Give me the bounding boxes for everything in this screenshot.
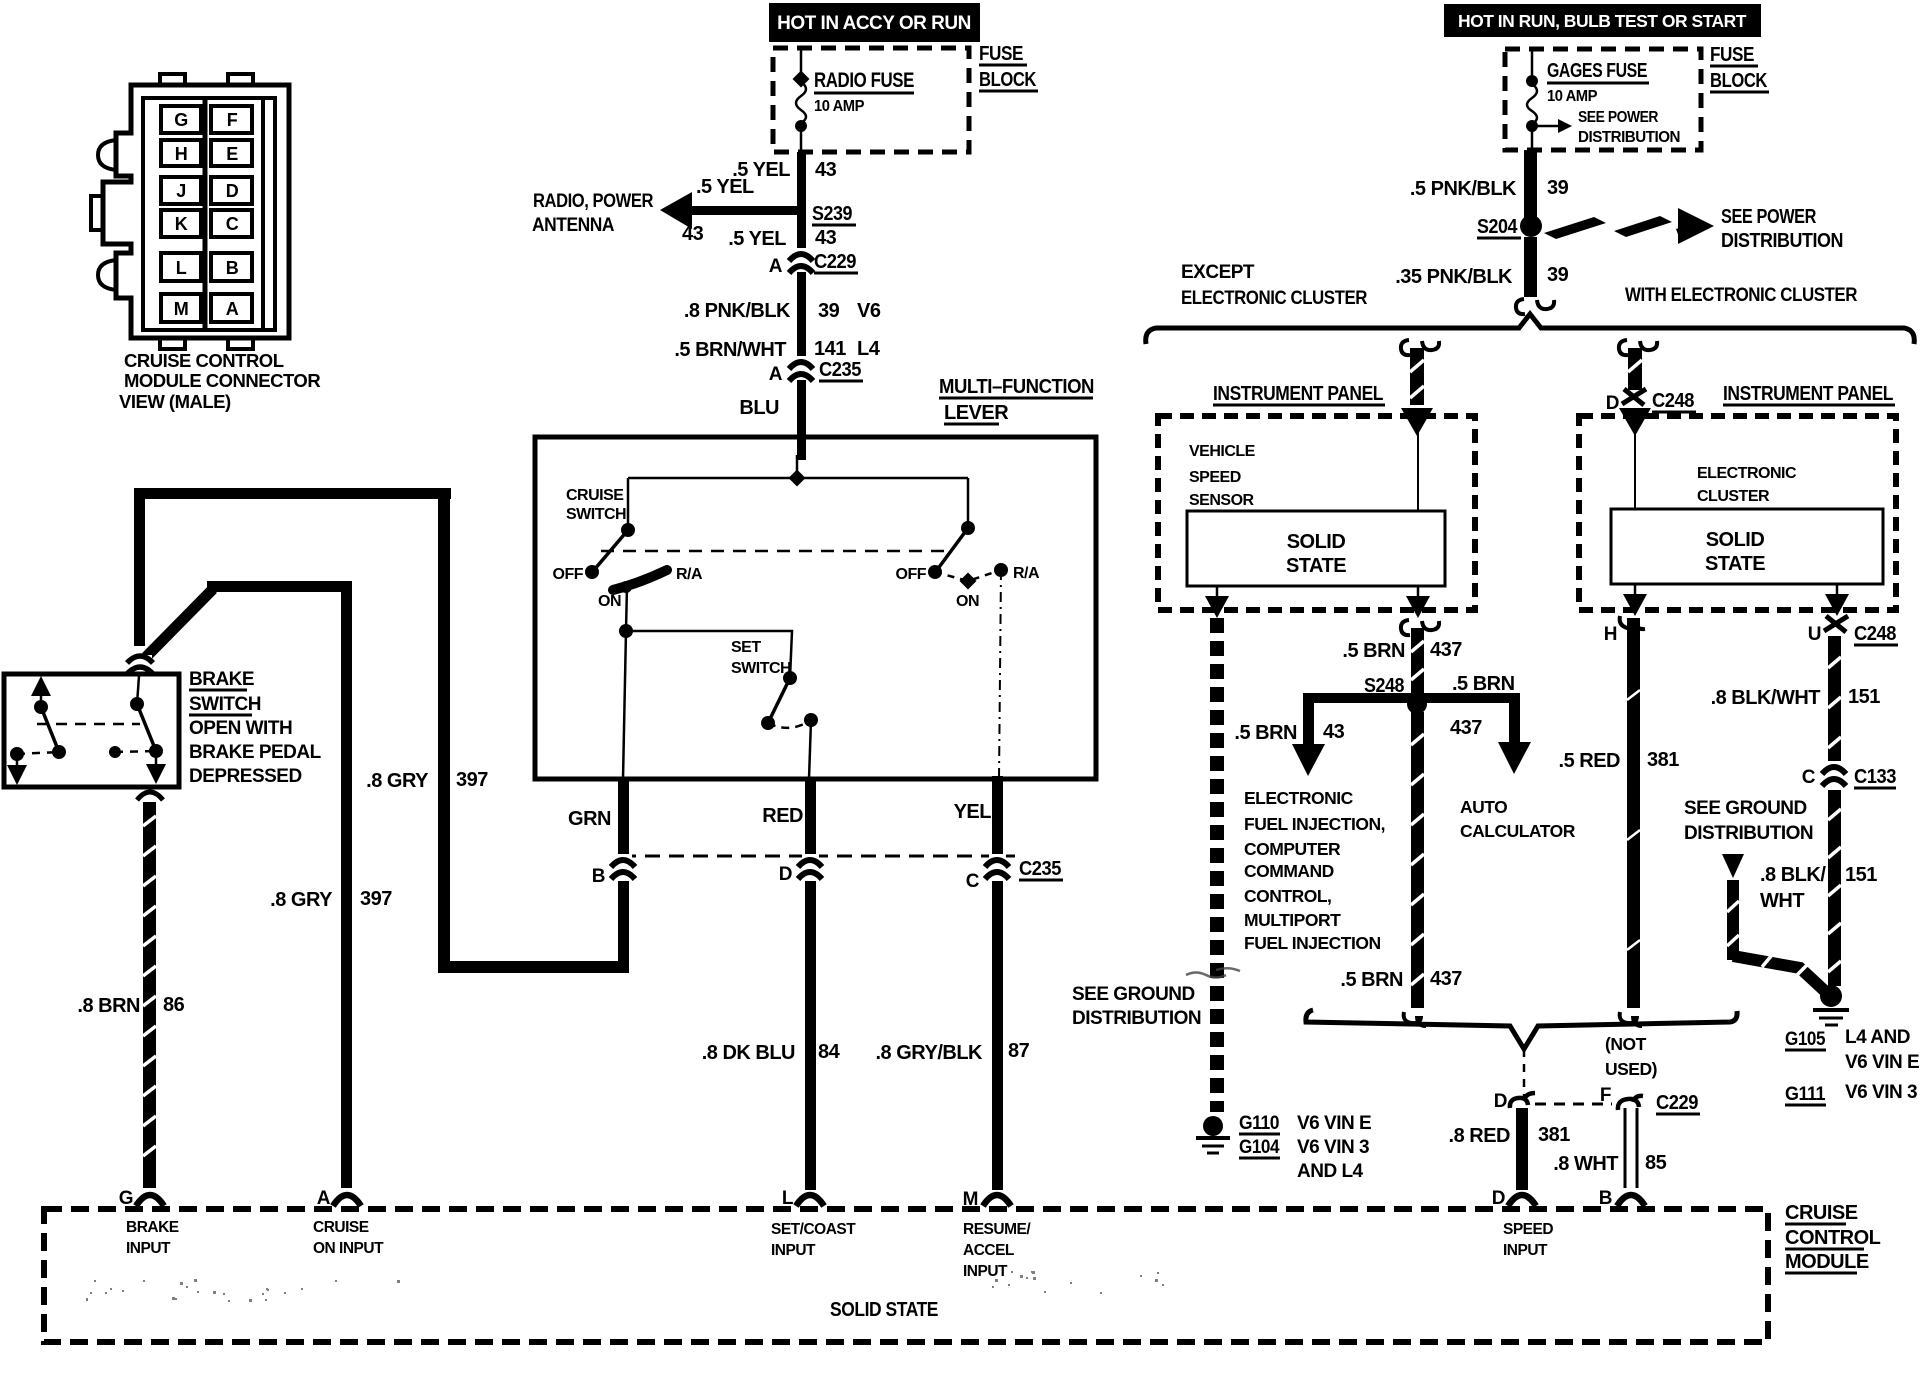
svg-text:.8 GRY: .8 GRY	[270, 889, 333, 911]
svg-text:OPEN WITH: OPEN WITH	[189, 718, 292, 739]
svg-text:CLUSTER: CLUSTER	[1697, 488, 1770, 505]
svg-text:S204: S204	[1477, 216, 1518, 238]
fuse block (radio fuse) dashed outline	[773, 48, 969, 152]
MULTI-FUNCTION LEVER label	[939, 376, 1094, 424]
ELECTRONIC FUEL INJECTION text	[1244, 788, 1385, 953]
svg-text:G: G	[119, 1188, 133, 1209]
C229 pin F connector	[1618, 1096, 1643, 1110]
hatched wire from ground distribution	[1727, 880, 1827, 993]
wire .8 DK BLU set/coast	[805, 881, 816, 1190]
gages fuse bottom terminal dot	[1526, 120, 1538, 132]
svg-text:.8 BLK/: .8 BLK/	[1760, 864, 1826, 886]
branch to auto calculator: stub and arrow	[1509, 693, 1520, 746]
svg-text:CRUISE: CRUISE	[313, 1219, 369, 1236]
RADIO POWER ANTENNA label	[532, 191, 654, 236]
svg-text:.5 YEL: .5 YEL	[728, 228, 786, 250]
module pin H connector (cluster output)	[1620, 616, 1645, 629]
svg-text:MULTIPORT: MULTIPORT	[1244, 910, 1341, 930]
brake switch left throw dashed	[17, 752, 59, 754]
svg-text:437: 437	[1430, 639, 1462, 661]
svg-text:ACCEL: ACCEL	[963, 1242, 1014, 1259]
BRAKE INPUT label	[126, 1219, 179, 1257]
wire to radio power antenna	[680, 206, 801, 215]
connector bottom mounting tab	[160, 338, 185, 349]
svg-text:437: 437	[1430, 968, 1462, 990]
svg-text:COMPUTER: COMPUTER	[1244, 839, 1341, 859]
right switch dashed throws	[935, 570, 1001, 581]
instrument panel box (speed sensor)	[1158, 416, 1475, 610]
set switch closed contact	[804, 713, 818, 727]
svg-text:INSTRUMENT PANEL: INSTRUMENT PANEL	[1723, 383, 1893, 405]
BRAKE SWITCH caption	[189, 669, 322, 787]
svg-text:GAGES FUSE: GAGES FUSE	[1547, 60, 1647, 82]
svg-text:FUSE: FUSE	[1710, 44, 1754, 66]
EXCEPT ELECTRONIC CLUSTER label	[1181, 262, 1368, 309]
svg-text:G111: G111	[1785, 1084, 1826, 1105]
CRUISE ON INPUT label	[313, 1219, 384, 1257]
svg-text:STATE: STATE	[1705, 553, 1765, 575]
svg-text:CRUISE: CRUISE	[1785, 1202, 1858, 1224]
svg-text:.5 RED: .5 RED	[1559, 750, 1621, 772]
pin E cavity	[211, 140, 252, 166]
svg-text:.35 PNK/BLK: .35 PNK/BLK	[1395, 266, 1513, 288]
VEHICLE SPEED SENSOR label	[1189, 443, 1256, 509]
brake switch left blade	[41, 707, 59, 752]
set switch pivot	[783, 671, 797, 685]
brake switch right pole arrow down	[155, 751, 158, 768]
FUSE BLOCK label (right block)	[1710, 44, 1768, 92]
brake switch right pole feed	[137, 676, 139, 704]
wire GRN loop: top horizontal segment	[137, 488, 451, 499]
svg-text:FUSE: FUSE	[979, 43, 1023, 65]
svg-text:397: 397	[456, 769, 488, 791]
SEE GROUND DISTRIBUTION (right)	[1684, 798, 1813, 844]
svg-text:C248: C248	[1854, 623, 1896, 645]
connector hooks at .5 RED wire end	[1620, 1012, 1642, 1026]
S248 distribution bar	[1303, 693, 1520, 703]
svg-text:.8 RED: .8 RED	[1449, 1125, 1511, 1147]
svg-text:INPUT: INPUT	[1503, 1242, 1548, 1259]
wire to left cruise switch	[627, 478, 630, 530]
svg-text:SPEED: SPEED	[1189, 469, 1241, 486]
pin F cavity	[211, 106, 252, 133]
svg-text:10 AMP: 10 AMP	[814, 98, 865, 115]
connector view caption	[119, 350, 320, 412]
right cruise switch pivot	[961, 521, 975, 535]
module pin D connector (lower)	[1508, 1195, 1536, 1206]
wire cruise-on branch horizontal	[207, 581, 352, 592]
connector outer shell	[103, 85, 289, 338]
wire GRN loop: left vertical segment	[438, 492, 450, 973]
instrument panel box (electronic cluster)	[1579, 416, 1896, 610]
svg-text:L4 AND: L4 AND	[1845, 1027, 1910, 1048]
svg-text:BLOCK: BLOCK	[1710, 70, 1768, 92]
svg-text:43: 43	[815, 227, 837, 249]
right branch connector hooks	[1619, 340, 1628, 355]
wire .8 WHT 85 (unfilled)	[1625, 1108, 1637, 1188]
svg-text:C229: C229	[814, 251, 856, 273]
pin B cavity	[211, 253, 252, 281]
svg-text:SPEED: SPEED	[1503, 1221, 1553, 1238]
svg-text:151: 151	[1845, 864, 1877, 886]
pin A cavity	[211, 294, 252, 322]
svg-text:RESUME/: RESUME/	[963, 1221, 1031, 1238]
brake switch right lower contact	[109, 746, 121, 758]
ground G105/G111	[1813, 985, 1849, 1025]
scan speckle noise inside module	[86, 1271, 1164, 1302]
SET SWITCH label	[731, 639, 791, 677]
svg-text:SOLID: SOLID	[1287, 531, 1346, 553]
wire .8 BRN 86 (hatched)	[143, 802, 156, 1188]
svg-text:F: F	[227, 110, 238, 130]
module pin G connector	[136, 1195, 164, 1206]
svg-text:D: D	[226, 181, 239, 201]
node junction at lever feed	[789, 470, 806, 487]
svg-text:G110: G110	[1239, 1113, 1279, 1134]
connector C229 pin A	[789, 248, 813, 273]
svg-text:SWITCH: SWITCH	[731, 660, 791, 677]
svg-text:84: 84	[818, 1041, 841, 1063]
svg-text:SWITCH: SWITCH	[189, 694, 261, 715]
svg-text:C133: C133	[1854, 766, 1896, 788]
svg-text:GRN: GRN	[568, 808, 611, 830]
svg-text:L: L	[176, 258, 187, 278]
NOT USED label	[1605, 1034, 1657, 1079]
radio fuse bottom terminal dot	[795, 120, 807, 132]
wire .35 PNK/BLK 39	[1524, 237, 1537, 297]
radio power antenna arrowhead	[660, 192, 692, 229]
svg-text:BRAKE: BRAKE	[189, 669, 254, 690]
svg-text:R/A: R/A	[676, 566, 703, 583]
ON contact (right switch)	[960, 573, 977, 590]
wire 43 from radio fuse (.5 YEL)	[797, 152, 806, 211]
arrow into right instrument panel	[1619, 408, 1651, 436]
svg-text:SEE POWER: SEE POWER	[1578, 109, 1658, 126]
svg-text:COMMAND: COMMAND	[1244, 861, 1334, 881]
svg-text:B: B	[226, 258, 239, 278]
wire inside speed sensor box	[1417, 432, 1419, 511]
cruise control module connector view (male)	[91, 74, 289, 349]
svg-text:(NOT: (NOT	[1605, 1034, 1647, 1054]
connector top mounting tab	[160, 74, 185, 85]
svg-text:C: C	[226, 214, 239, 234]
branch brace	[1146, 314, 1915, 344]
svg-text:.5 PNK/BLK: .5 PNK/BLK	[1410, 178, 1517, 200]
svg-text:SWITCH: SWITCH	[566, 506, 626, 523]
left cruise switch pivot	[621, 523, 635, 537]
brake switch left pole arrow down	[16, 754, 19, 770]
svg-text:MODULE: MODULE	[1785, 1251, 1869, 1273]
svg-text:.8 GRY: .8 GRY	[366, 770, 429, 792]
svg-text:DISTRIBUTION: DISTRIBUTION	[1072, 1008, 1201, 1029]
SOLID STATE label (cluster)	[1705, 529, 1765, 575]
SEE POWER DISTRIBUTION (splice)	[1721, 206, 1843, 252]
set switch open contact	[761, 716, 775, 730]
connector center divider	[203, 100, 208, 328]
connector C235 harness dashed line	[621, 855, 1015, 858]
SET/COAST INPUT label	[771, 1221, 856, 1259]
connector inner housing	[143, 98, 275, 330]
connector hooks above S248 wire	[1401, 620, 1410, 635]
wire brace to right instrument panel (hatched)	[1628, 348, 1642, 390]
svg-text:CALCULATOR: CALCULATOR	[1460, 821, 1576, 841]
wire GRN branch inside box	[623, 631, 626, 779]
connector left lock tab lower	[98, 260, 116, 290]
svg-text:D: D	[779, 864, 792, 885]
right OFF contact	[928, 565, 942, 579]
speed signal gathering brace	[1306, 1010, 1737, 1049]
wire .5 RED 381 from cluster H	[1627, 618, 1640, 1008]
wire speed sensor to ground (dashed heavy)	[1210, 618, 1224, 1112]
C235 pin D connector	[798, 854, 822, 879]
wire label .8 BLK/WHT (lower)	[1760, 864, 1826, 912]
svg-text:ON: ON	[598, 593, 621, 610]
right branch: C248 pin D connector	[1622, 389, 1646, 405]
svg-text:.5 BRN/WHT: .5 BRN/WHT	[674, 339, 786, 361]
svg-text:151: 151	[1848, 686, 1880, 708]
svg-text:.8 DK BLU: .8 DK BLU	[702, 1042, 795, 1064]
brake switch right blade	[137, 704, 156, 751]
wire .5 BRN 437 upper	[1411, 628, 1424, 700]
wire stub into lever box	[796, 455, 799, 478]
svg-text:INPUT: INPUT	[963, 1263, 1008, 1280]
cluster output arrow left	[1634, 584, 1637, 601]
svg-text:.8 BLK/WHT: .8 BLK/WHT	[1711, 687, 1821, 709]
C248 pin U connector	[1824, 616, 1848, 632]
svg-text:ELECTRONIC CLUSTER: ELECTRONIC CLUSTER	[1181, 288, 1368, 309]
svg-text:L: L	[782, 1188, 794, 1209]
pin K cavity	[161, 210, 201, 237]
svg-text:39: 39	[818, 300, 840, 322]
wire .5 BRN 437 lower (hatched)	[1411, 712, 1424, 1008]
svg-text:.5 BRN: .5 BRN	[1234, 722, 1297, 744]
svg-text:DISTRIBUTION: DISTRIBUTION	[1684, 823, 1813, 844]
wire to set switch	[626, 631, 792, 678]
svg-text:V6 VIN 3: V6 VIN 3	[1845, 1082, 1917, 1103]
svg-text:F: F	[1600, 1085, 1611, 1106]
svg-text:SOLID STATE: SOLID STATE	[830, 1299, 938, 1321]
wire ON contact to set switch node	[626, 585, 627, 631]
svg-text:V6 VIN E: V6 VIN E	[1845, 1052, 1919, 1073]
brake switch left pole arrow up	[40, 694, 43, 707]
brake switch right pivot	[130, 697, 144, 711]
switch coupling dashed link	[601, 550, 944, 553]
svg-text:EXCEPT: EXCEPT	[1181, 262, 1255, 283]
pin D cavity	[211, 177, 252, 204]
svg-text:BRAKE: BRAKE	[126, 1219, 179, 1236]
connector C235 pin A	[789, 356, 813, 381]
connector top right mounting tab	[228, 74, 253, 85]
pin G cavity	[161, 106, 201, 133]
brake switch right throw dashed	[115, 751, 156, 752]
svg-text:M: M	[174, 299, 189, 319]
R/A swing arc (left switch)	[613, 570, 667, 590]
brake switch left contact	[52, 745, 66, 759]
module pin B connector	[1617, 1195, 1645, 1206]
wire .8 BLK/WHT 151 lower (hatched)	[1828, 790, 1841, 986]
wire GRN below lever box	[618, 779, 629, 855]
svg-text:V6: V6	[857, 300, 881, 322]
SPEED INPUT label	[1503, 1221, 1553, 1259]
svg-text:.8 PNK/BLK: .8 PNK/BLK	[684, 300, 791, 322]
svg-text:S239: S239	[812, 203, 852, 225]
wire .8 RED 381	[1516, 1108, 1528, 1190]
svg-text:C235: C235	[1019, 858, 1061, 880]
svg-text:E: E	[226, 144, 238, 164]
SEE GROUND DISTRIBUTION (left)	[1072, 984, 1201, 1029]
C229 pin D connector (upper)	[1510, 1093, 1535, 1108]
brake switch left pivot	[34, 700, 48, 714]
SEE POWER DISTRIBUTION (fuse block)	[1578, 109, 1680, 146]
svg-text:SOLID: SOLID	[1706, 529, 1765, 551]
wire YEL below lever box	[992, 776, 1003, 855]
cruise control module box	[44, 1209, 1768, 1342]
FUSE BLOCK label (left block)	[979, 43, 1037, 91]
HOT IN ACCY OR RUN power header	[769, 3, 980, 42]
brake switch right contact	[149, 744, 163, 758]
svg-text:SEE GROUND: SEE GROUND	[1072, 984, 1195, 1005]
pin L cavity	[161, 253, 201, 281]
svg-text:SENSOR: SENSOR	[1189, 492, 1255, 509]
wire cruise-on branch vertical (.8 GRY 397)	[341, 581, 352, 1188]
HOT IN RUN BULB TEST OR START power header	[1444, 4, 1761, 37]
svg-text:BLOCK: BLOCK	[979, 69, 1037, 91]
svg-text:RADIO FUSE: RADIO FUSE	[814, 69, 914, 92]
svg-text:43: 43	[1323, 721, 1345, 743]
svg-text:.8 WHT: .8 WHT	[1553, 1153, 1618, 1175]
svg-text:SEE GROUND: SEE GROUND	[1684, 798, 1807, 819]
svg-text:ELECTRONIC: ELECTRONIC	[1244, 788, 1354, 808]
pin M cavity	[161, 294, 201, 322]
branch to EFI: stub and arrow	[1303, 693, 1314, 748]
set switch dashed throw	[768, 720, 811, 728]
pin H cavity	[161, 140, 201, 166]
svg-text:G104: G104	[1239, 1137, 1280, 1158]
svg-text:VEHICLE: VEHICLE	[1189, 443, 1256, 460]
radio fuse top terminal dot	[793, 71, 810, 88]
svg-text:FUEL INJECTION,: FUEL INJECTION,	[1244, 814, 1385, 834]
speed sensor solid state box	[1187, 511, 1445, 586]
dashed link brace to pin D	[1523, 1049, 1526, 1096]
svg-text:DISTRIBUTION: DISTRIBUTION	[1721, 230, 1843, 252]
svg-text:RADIO, POWER: RADIO, POWER	[533, 191, 654, 212]
left branch connector hooks	[1401, 340, 1410, 355]
svg-text:A: A	[226, 299, 239, 319]
svg-text:A: A	[769, 256, 783, 277]
svg-text:H: H	[175, 144, 188, 164]
svg-text:A: A	[769, 364, 783, 385]
svg-text:V6 VIN E: V6 VIN E	[1297, 1113, 1371, 1134]
SOLID STATE label (speed sensor)	[1286, 531, 1346, 577]
svg-text:397: 397	[360, 888, 392, 910]
hatched arrow to power distribution	[1544, 208, 1714, 244]
svg-text:.5 BRN: .5 BRN	[1340, 969, 1403, 991]
brake switch output connector	[137, 792, 163, 800]
svg-text:FUEL INJECTION: FUEL INJECTION	[1244, 933, 1381, 953]
svg-text:HOT IN ACCY OR RUN: HOT IN ACCY OR RUN	[777, 13, 971, 34]
dashed link D to F	[1535, 1103, 1612, 1106]
radio fuse F1	[796, 50, 806, 152]
wire GRN loop to brake switch: down segment	[618, 881, 629, 972]
G105 application label	[1845, 1027, 1919, 1073]
svg-text:381: 381	[1538, 1124, 1570, 1146]
wire .8 GRY/BLK resume/accel	[992, 881, 1003, 1190]
gages fuse top terminal dot	[1526, 75, 1538, 87]
fuse block (gages fuse) dashed outline	[1505, 49, 1701, 150]
svg-text:CRUISE: CRUISE	[566, 487, 624, 504]
connector C133 pin C	[1822, 761, 1846, 786]
svg-text:L4: L4	[857, 338, 881, 360]
svg-text:USED): USED)	[1605, 1059, 1657, 1079]
connector half hooks at wire end	[1516, 299, 1525, 314]
speed sensor output arrow left	[1216, 586, 1219, 603]
svg-text:BRAKE PEDAL: BRAKE PEDAL	[189, 742, 322, 763]
svg-text:43: 43	[682, 223, 704, 245]
svg-text:39: 39	[1547, 177, 1569, 199]
svg-text:D: D	[1494, 1091, 1507, 1112]
svg-text:H: H	[1604, 624, 1617, 645]
svg-text:85: 85	[1645, 1152, 1667, 1174]
multi-function lever box	[535, 437, 1096, 779]
svg-text:DEPRESSED: DEPRESSED	[189, 766, 302, 787]
svg-text:43: 43	[815, 159, 837, 181]
svg-text:B: B	[1599, 1188, 1612, 1209]
connector bottom right mounting tab	[228, 338, 253, 349]
AUTO CALCULATOR text	[1460, 797, 1576, 841]
speed sensor output arrow right	[1417, 586, 1420, 603]
right cruise switch blade	[937, 528, 968, 570]
svg-text:V6 VIN 3: V6 VIN 3	[1297, 1137, 1369, 1158]
ground G110/G104	[1196, 1116, 1230, 1153]
svg-text:C248: C248	[1652, 390, 1694, 412]
lever feed bus wire	[628, 477, 968, 480]
svg-text:39: 39	[1547, 264, 1569, 286]
svg-text:C: C	[1802, 767, 1816, 788]
svg-text:R/A: R/A	[1013, 565, 1040, 582]
node at set switch branch	[619, 624, 633, 638]
svg-text:YEL: YEL	[954, 801, 992, 823]
gages fuse F2	[1527, 51, 1537, 124]
svg-text:.5 YEL: .5 YEL	[696, 176, 754, 198]
svg-text:AND L4: AND L4	[1297, 1161, 1364, 1182]
left cruise switch blade	[594, 530, 628, 570]
connector inner right wall	[261, 98, 265, 330]
svg-text:OFF: OFF	[553, 566, 584, 583]
connector hooks at lower 437 wire end	[1404, 1012, 1426, 1026]
svg-text:.5 BRN: .5 BRN	[1342, 640, 1405, 662]
wire set switch to box edge	[809, 720, 811, 779]
ON contact (left switch)	[620, 581, 632, 593]
scan smudge above see-ground label	[1186, 968, 1240, 977]
svg-text:DISTRIBUTION: DISTRIBUTION	[1578, 129, 1680, 146]
svg-text:.8 GRY/BLK: .8 GRY/BLK	[876, 1042, 984, 1064]
module pin M connector	[983, 1195, 1011, 1206]
svg-text:87: 87	[1008, 1040, 1030, 1062]
svg-text:B: B	[592, 866, 605, 887]
svg-text:K: K	[175, 214, 188, 234]
pin C cavity	[211, 210, 252, 237]
svg-text:INPUT: INPUT	[126, 1240, 171, 1257]
svg-text:J: J	[176, 181, 186, 201]
svg-text:ON: ON	[956, 593, 979, 610]
connector left lock tab upper	[98, 140, 116, 170]
svg-text:SET/COAST: SET/COAST	[771, 1221, 856, 1238]
left OFF contact	[585, 565, 599, 579]
connector left key slot	[91, 196, 103, 230]
svg-text:RED: RED	[762, 805, 803, 827]
splice S248	[1407, 694, 1427, 714]
svg-text:D: D	[1606, 393, 1619, 414]
